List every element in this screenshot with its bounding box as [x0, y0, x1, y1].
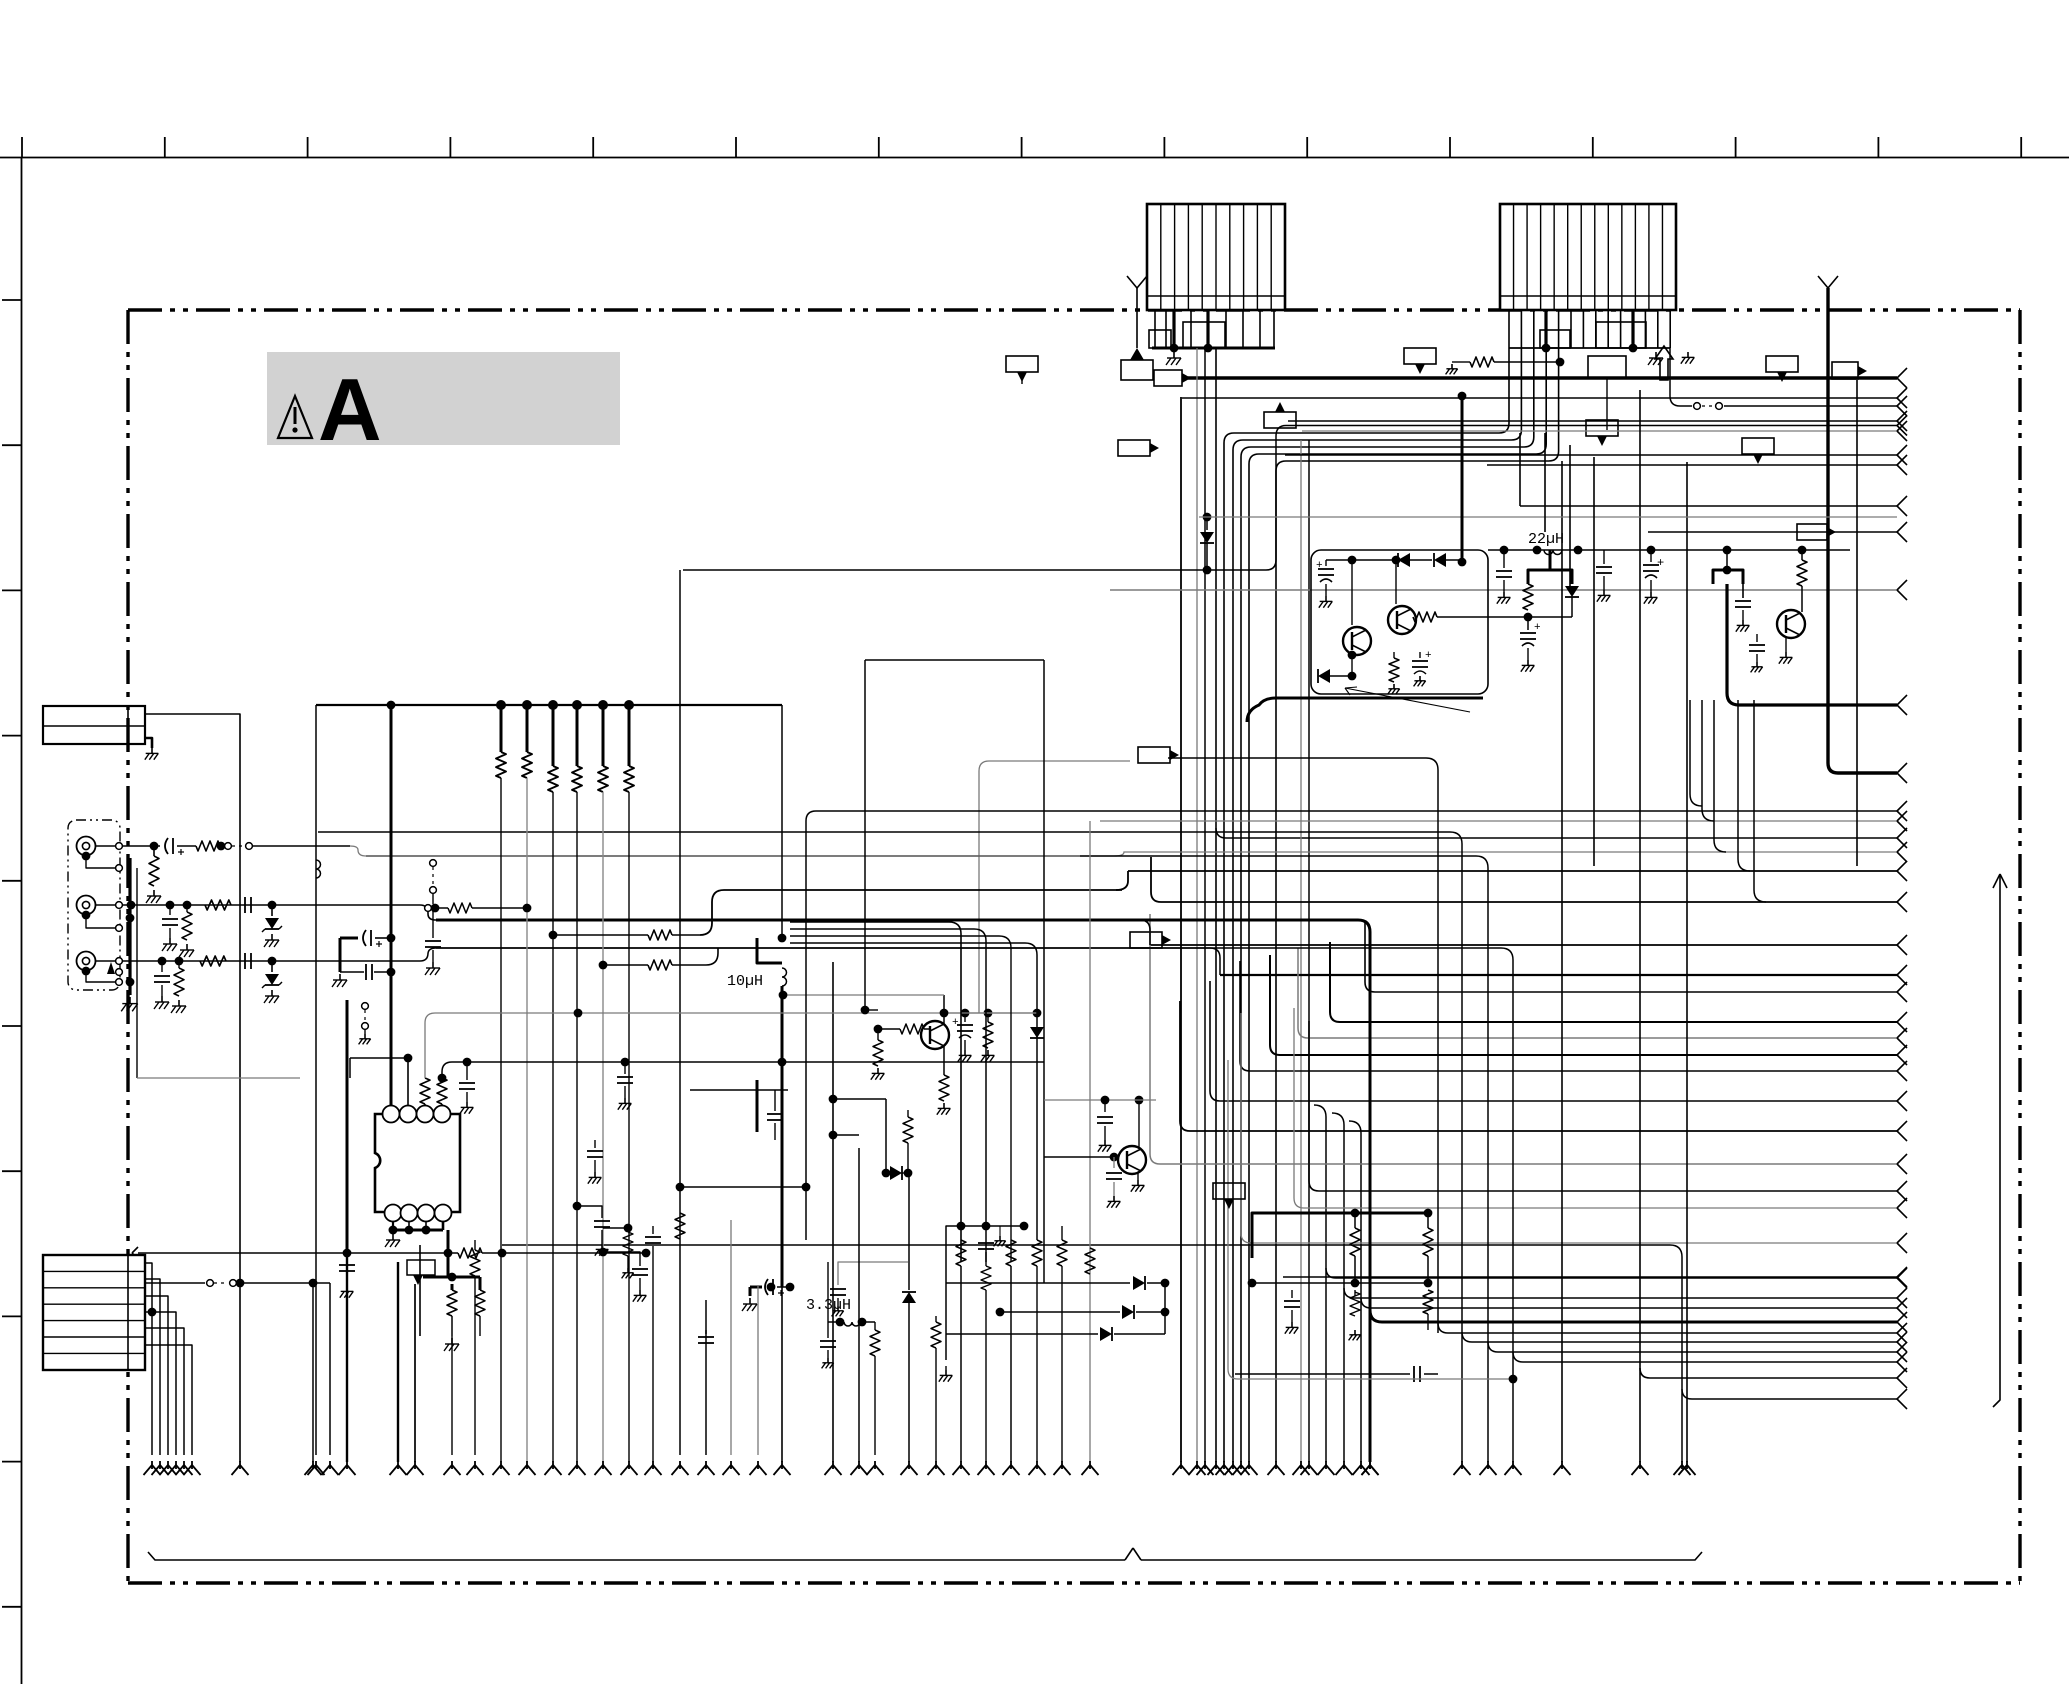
caps mid bottom [1291, 1290, 1293, 1298]
cap 22uH right [1603, 550, 1605, 564]
CN2 junction dot b [1629, 344, 1638, 353]
ecap emitter [1527, 617, 1529, 630]
res 3.3uH [874, 1322, 876, 1330]
wire x1044 [1043, 660, 1045, 1283]
res x1428 [1427, 1213, 1429, 1228]
wire row 852 jog [1080, 852, 1897, 856]
flag on row532 [1797, 524, 1827, 540]
CN2 junction dot a [1542, 344, 1551, 353]
wire jack vertical x137 [136, 868, 138, 1078]
gray row y1379 [1228, 1060, 1513, 1379]
CN1 ground [1173, 352, 1175, 358]
verticals right extra [1519, 433, 1521, 506]
svg-text:A: A [318, 360, 382, 459]
ruler tick marks left [2, 300, 22, 1607]
res x628 [624, 1224, 633, 1233]
coil 10uH [782, 968, 787, 986]
cap x640 [603, 1252, 640, 1266]
bends below sub-circuit [1690, 700, 1766, 902]
junction dot x391 [387, 701, 396, 710]
cap x595 [594, 1140, 596, 1148]
RCA jack J3 [77, 952, 96, 971]
cap x775 [774, 1090, 776, 1111]
cap row2 shunt [169, 905, 171, 915]
resistor left link [458, 1248, 482, 1258]
junction dot row1 [150, 842, 159, 851]
IC pin2 top wire [407, 1058, 409, 1106]
junction dot row2b [268, 901, 277, 910]
wire x936 [935, 1316, 937, 1322]
caution warning triangle [278, 396, 312, 438]
bus y705 left drop [315, 705, 317, 1455]
wire end arrow x316 [308, 1465, 317, 1475]
RCA jack J1 [77, 837, 96, 856]
cap x986 [982, 1222, 991, 1231]
wire y1058 [350, 1057, 408, 1059]
diode row2 mid [1000, 1311, 1120, 1313]
wire x1090 [1089, 821, 1091, 1462]
ecap bracket ground [339, 938, 342, 972]
thick bus y1213 [1252, 1213, 1428, 1258]
thick staircase y920 [436, 920, 1370, 1462]
antenna lead-in Y symbol [1127, 276, 1137, 288]
connector CN2 [1500, 204, 1676, 310]
right page-link wires [1100, 388, 1907, 1287]
wire y517 gray [1199, 516, 1897, 518]
diode x1572 [1565, 586, 1579, 597]
CN3 wire arrows [144, 1461, 201, 1475]
wire x420 down [419, 1245, 421, 1336]
jack terminal pins [116, 843, 123, 986]
thick wire x347 [346, 1000, 349, 1253]
cluster x771 ecap [750, 1286, 762, 1289]
wire end arrows center bundle [1173, 1461, 1379, 1475]
Q4 emitter down [943, 1046, 945, 1075]
ecap row1 [165, 838, 168, 854]
IC pin1 top wire [390, 1092, 393, 1106]
wire left edge link [138, 1252, 458, 1254]
row3 jog [420, 948, 1210, 961]
wire x680 [679, 570, 681, 1455]
flag small x1840 [1832, 362, 1858, 379]
IC U1 body [375, 1114, 460, 1212]
CN2 pin bus [1509, 347, 1670, 349]
res x1428b [1423, 1290, 1433, 1314]
jumper column [430, 860, 437, 867]
resistor row3 shunt [178, 961, 180, 968]
transistor Q4 [921, 1021, 949, 1049]
transistor Q1 [1343, 627, 1371, 655]
wire y560 in box [1326, 559, 1352, 561]
IC ground [392, 1234, 394, 1240]
wire jack row3 [122, 960, 420, 962]
Q5 emitter [1137, 1172, 1139, 1180]
cap x1743 [1742, 584, 1744, 598]
connector CN1 pins [1155, 310, 1274, 348]
thick bracket [1528, 570, 1572, 584]
IC pin3 top wire [424, 1104, 426, 1106]
transistor Q2 [1388, 606, 1416, 634]
ecap x1651 [1647, 546, 1656, 555]
IC bottom bus [393, 1229, 443, 1232]
flag x1140 y445 [1118, 440, 1150, 456]
svg-text:+: + [1425, 650, 1432, 662]
svg-text:+: + [1316, 560, 1323, 572]
wire jack row2 [122, 904, 420, 906]
junction dots row2 [127, 901, 136, 910]
gnd x946 [945, 1366, 947, 1370]
wire x731 [730, 1220, 732, 1455]
Q5 cap [1104, 1100, 1106, 1112]
wire x758 [757, 1285, 759, 1455]
resistor row1 [196, 841, 220, 851]
res x1062 [1061, 1226, 1063, 1240]
bus arrow y378 [1897, 368, 1907, 378]
coil 3.3uH [836, 1318, 845, 1327]
jack J1 shield lead [86, 856, 119, 869]
gnd Q3 [1785, 638, 1787, 652]
bus y705 right drop [781, 705, 783, 938]
jumper column x365 [362, 1003, 369, 1010]
cap row3 shunt [161, 961, 163, 972]
resistor row2 [205, 900, 231, 910]
resistor x1802 [1801, 550, 1803, 560]
wire end arrow x240 [232, 1465, 241, 1475]
junction dots row3 [158, 957, 167, 966]
jumper cap [432, 908, 434, 938]
wire end arrows resistor bank [493, 1461, 638, 1475]
resistor row3 [200, 956, 226, 966]
wire pair center [1300, 440, 1302, 1462]
svg-text:+: + [1657, 556, 1664, 570]
row1 jog to long wire [350, 846, 1080, 856]
CN2 pin brackets [1540, 330, 1570, 348]
wire x398 [397, 1262, 399, 1462]
flag x1130 y940 [1130, 932, 1162, 948]
connector CN2 pins [1509, 310, 1670, 348]
diode row1 mid [946, 1282, 1130, 1284]
transistor Q5 [1118, 1146, 1146, 1174]
staircase wires to bottom-right cluster [318, 758, 1907, 1475]
cap 22uH left [1500, 546, 1509, 555]
wire y1078 right [137, 1077, 300, 1079]
wire y570 horizontal [682, 569, 684, 571]
zener row3 [271, 961, 273, 972]
wire y1062 [452, 1061, 1044, 1063]
jack J3 shield lead [86, 971, 119, 983]
board outline dash-dot bottom [128, 1581, 2020, 1584]
section divider line right [1993, 876, 2000, 1407]
Q4 base resistor gnd [877, 1029, 879, 1040]
res Q1 emitter [1393, 652, 1395, 658]
RCA jack J2 [77, 896, 96, 915]
S-bend bundle center [790, 922, 961, 1262]
block top-left [43, 706, 145, 744]
thick stub x1462 [1461, 396, 1464, 562]
wire row 806 [806, 811, 1897, 1240]
thick seg x757 [756, 1080, 759, 1132]
Q5 base cap [1113, 1157, 1115, 1168]
wire y550 right [1488, 549, 1850, 551]
flag x1013 on bus [1006, 356, 1038, 372]
jack terminal triangle [107, 962, 115, 974]
cap x467 [466, 1062, 468, 1080]
resistor x1528 [1523, 584, 1533, 610]
page border ruler top [0, 157, 2069, 159]
jack group outline [68, 820, 120, 990]
shield bus [128, 858, 131, 995]
thick wire x392 [390, 705, 393, 1092]
wire Q1 emitter link [1351, 655, 1353, 676]
wire bundle late joiners [1314, 1105, 1907, 1462]
resistor base Q2 [1413, 612, 1437, 622]
res x908 [907, 1110, 909, 1117]
wire x782 to arrow [781, 986, 784, 1287]
cap x1757 [1756, 634, 1758, 642]
tuner lead Y symbol [1818, 276, 1828, 288]
box cluster mid [946, 1226, 1024, 1360]
Q4 collector up [943, 995, 945, 1024]
flag up on row398 [1264, 412, 1296, 428]
CN3 row wires [145, 1263, 192, 1455]
Q5 base wire [1044, 1156, 1118, 1158]
caution label box [267, 352, 620, 445]
flag on bus x1588 box [1588, 356, 1626, 378]
coil on x316 [316, 860, 321, 878]
jack J2 shield lead [86, 915, 119, 929]
wire y1187 [676, 1183, 685, 1192]
jumper link row y406 [1670, 348, 1692, 406]
flag x1586 y435 [1586, 420, 1618, 436]
flag x1742 y441 [1742, 438, 1774, 454]
wire bundle below CN1 [1181, 348, 1907, 1462]
gnd x1000 [999, 1226, 1001, 1236]
IC U1 pin circles [383, 1106, 452, 1222]
svg-text:10µH: 10µH [727, 973, 763, 990]
resistor bank [496, 700, 634, 1462]
CN3 jumper row [148, 1308, 157, 1317]
resistor row1 shunt [153, 846, 155, 856]
diode y1173 [890, 1166, 902, 1180]
flag x1766 [1766, 356, 1798, 372]
flag on bus x1404 [1404, 348, 1436, 364]
svg-text:+: + [1534, 622, 1541, 634]
res x680b [675, 1213, 685, 1239]
pointer line [1345, 688, 1470, 712]
ecap Q1 [1419, 652, 1421, 658]
junction dot 782 938 [778, 934, 787, 943]
resistor row2 shunt [186, 905, 188, 912]
Q5 collector [1138, 1100, 1140, 1149]
wire row y965 [599, 961, 608, 970]
Q4 base wire [878, 1028, 900, 1030]
connector CN1 [1147, 204, 1285, 310]
res x1011 [1006, 1240, 1016, 1266]
bus y705 [316, 704, 782, 706]
shield bus dots [126, 914, 135, 923]
wire end arrow x680 [672, 1465, 681, 1475]
res x1037 [1032, 1240, 1042, 1266]
diode feedback [1318, 669, 1330, 683]
thick pair x450 [447, 1245, 450, 1277]
ground stub 1460 [1451, 364, 1453, 369]
jumper row1 [225, 843, 232, 850]
resistor near 1488 bus [1470, 357, 1494, 367]
antenna net flag [1121, 360, 1153, 380]
diode x909 [908, 1173, 910, 1290]
wire thick bus y378 [1188, 376, 1897, 379]
wire end arrow x1090 [1082, 1465, 1091, 1475]
wire x313 arrow [309, 1279, 318, 1288]
IC bottom dots [389, 1226, 398, 1235]
CN1 junction dot pin6 [1204, 344, 1213, 353]
cap 3.3uH upper [830, 1288, 846, 1290]
cap x578 [573, 1202, 582, 1211]
Q4 ecap [964, 1013, 966, 1022]
thick step y890 to y871 [1116, 871, 1128, 890]
wire x706 cap [705, 1300, 707, 1455]
wire y660 from x865 [865, 659, 1044, 661]
cluster 3.3uH box [838, 1262, 908, 1285]
wire x828 up [827, 1262, 829, 1338]
wire base Q2 [1437, 616, 1528, 618]
svg-text:+: + [952, 1017, 959, 1029]
CN1 pin bus [1152, 347, 1275, 350]
board outline dash-dot left [126, 310, 129, 1583]
CN1 junction dot pin3 [1170, 344, 1179, 353]
IC thick stub [447, 1230, 450, 1245]
Q4 wire y1013 [944, 1012, 1037, 1014]
cluster x771 bracket [749, 1287, 752, 1296]
wire x1165 vert [1164, 1283, 1166, 1334]
jumper row resistor [425, 905, 432, 912]
wire row 425 from y570 [683, 426, 1897, 571]
cap row y1374 [1235, 1373, 1410, 1375]
cap x653 [652, 1226, 654, 1234]
diode x1207 [1203, 513, 1212, 522]
Q4 res right [987, 1013, 989, 1022]
verticals right group2 [1561, 461, 1563, 1462]
cap row3 [244, 953, 246, 969]
junction dot row1b [217, 842, 226, 851]
thick wire y697 [1247, 698, 1483, 722]
connector CN3 [43, 1255, 145, 1370]
IC pin4 top wire [441, 1104, 443, 1106]
section divider line bottom [148, 1552, 1125, 1560]
Q5 wire y1100 [1044, 1099, 1156, 1101]
cap x347 [346, 1253, 348, 1262]
diode row3 mid [946, 1333, 1098, 1335]
page border ruler left [21, 158, 23, 1684]
gray wire x979 [979, 761, 1130, 1013]
wire x865 seg [864, 660, 866, 1010]
diodes pair [1348, 556, 1357, 565]
bus VCC flag [1154, 370, 1182, 386]
thick hook x1730 [1713, 570, 1743, 584]
wire x415 [414, 1284, 416, 1462]
wire bundle CN2 to center [1224, 348, 1559, 1462]
flag mid bottom [1213, 1183, 1245, 1199]
res x961 [957, 1222, 966, 1231]
wire y1283 mid [1252, 1282, 1428, 1284]
antenna terminal arrow [1130, 348, 1144, 360]
wire row y935 [549, 931, 558, 940]
gray wire y1013 [435, 1012, 1037, 1014]
flag x1138 y755 [1138, 747, 1170, 763]
transistor Q3 [1777, 610, 1805, 638]
res x1355 [1354, 1213, 1356, 1228]
cap x372 lower [340, 971, 364, 973]
block arrow up x1664 [1655, 346, 1673, 380]
sub-circuit outline [1311, 550, 1488, 694]
cap row2 [244, 897, 246, 913]
flag below IC [407, 1260, 435, 1275]
ground at 1690 bus [1687, 352, 1689, 357]
zener row2 [271, 905, 273, 916]
board outline dash-dot top [128, 308, 2020, 311]
board outline dash-dot right [2018, 310, 2021, 1583]
svg-text:22µH: 22µH [1528, 531, 1564, 548]
junction dot row3b [268, 957, 277, 966]
res x475 [474, 1240, 476, 1250]
wire y1099 [833, 1098, 886, 1100]
wire x452 arrow [451, 1336, 453, 1455]
cap x625 [624, 1062, 626, 1074]
coil 22uH [1544, 550, 1562, 555]
wire block to right [145, 714, 240, 1462]
thick wire to arrow y705 [1727, 584, 1897, 705]
thick elbow IC supply [757, 938, 782, 963]
block ground stub [145, 738, 152, 748]
wire y1090 [690, 1089, 788, 1091]
CN2 ground [1655, 352, 1657, 358]
ruler tick marks top [22, 137, 2021, 158]
cap 3.3uH lower [820, 1340, 836, 1342]
wire x859 [858, 1148, 860, 1462]
wire x833 [832, 962, 834, 1462]
ecap top-left box [1325, 560, 1327, 566]
wire jack row1 [122, 845, 160, 847]
ecap x372 upper [340, 937, 358, 940]
CN1 pin brackets [1149, 330, 1171, 348]
Q4 diode [1033, 1009, 1042, 1018]
row2 jog [420, 905, 1140, 920]
thick wire to arrow y773 [1828, 288, 1897, 773]
